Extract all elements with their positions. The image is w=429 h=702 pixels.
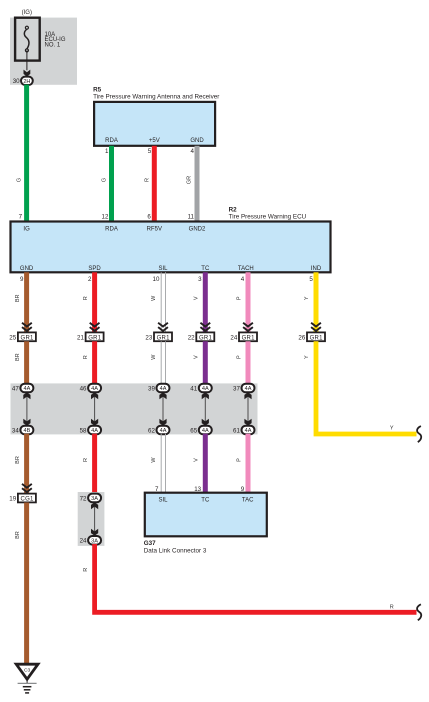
svg-text:BR: BR <box>15 294 21 302</box>
svg-text:21: 21 <box>77 334 84 341</box>
connector GR1 pin 26 <box>298 323 325 342</box>
connector 4A pin 46 <box>80 384 101 393</box>
svg-text:TACH: TACH <box>238 266 254 272</box>
svg-text:GR: GR <box>187 176 193 184</box>
svg-text:BR: BR <box>15 456 21 464</box>
svg-text:R5: R5 <box>93 86 102 93</box>
svg-text:RDA: RDA <box>105 138 118 144</box>
connector 2H pin 30 <box>13 77 33 85</box>
svg-text:47: 47 <box>12 385 19 392</box>
svg-text:19: 19 <box>9 496 16 503</box>
svg-text:SIL: SIL <box>158 498 168 504</box>
connector GR1 pin 21 <box>77 323 104 342</box>
svg-text:72: 72 <box>80 495 87 502</box>
svg-text:GR1: GR1 <box>199 335 213 341</box>
connector GR1 pin 25 <box>9 323 36 342</box>
svg-text:5: 5 <box>309 276 313 283</box>
svg-text:Tire Pressure Warning ECU: Tire Pressure Warning ECU <box>229 214 307 221</box>
svg-text:Y: Y <box>304 355 310 359</box>
wire IND yellow elbow to right edge <box>304 341 417 434</box>
wire TC violet GR1 to junction 4A <box>194 341 208 384</box>
arrow between 72 and 24 <box>91 502 98 536</box>
svg-text:GND: GND <box>20 266 34 272</box>
wire GND brown from R2 pin 9 to GR1 <box>15 272 29 334</box>
svg-text:4B: 4B <box>23 428 30 434</box>
wire GND brown junction to CG1 <box>15 434 29 495</box>
arrow from fuse to connector 2H <box>24 50 31 76</box>
wire SIL white GR1 to junction 4A <box>151 341 166 384</box>
svg-text:IND: IND <box>311 266 322 272</box>
svg-text:GR1: GR1 <box>157 335 171 341</box>
svg-text:3A: 3A <box>91 496 98 502</box>
wire TACH pink junction to G37 pin 9 <box>236 434 250 493</box>
svg-text:4A: 4A <box>245 386 252 392</box>
svg-text:GR1: GR1 <box>242 335 256 341</box>
svg-text:4A: 4A <box>91 386 98 392</box>
svg-text:26: 26 <box>298 334 305 341</box>
break symbol yellow wire <box>417 426 421 442</box>
arrow between 41 and 65 <box>202 392 209 426</box>
svg-text:P: P <box>236 458 242 462</box>
connector 4A pin 39 <box>148 384 169 393</box>
svg-text:R: R <box>83 568 89 572</box>
R5 Tire Pressure Warning Antenna and Receiver <box>93 86 219 154</box>
wire TACH pink GR1 to junction 4A <box>236 341 250 384</box>
svg-text:23: 23 <box>145 334 152 341</box>
svg-text:BR: BR <box>15 353 21 361</box>
svg-text:CG1: CG1 <box>21 497 35 503</box>
svg-text:2H: 2H <box>23 79 30 85</box>
svg-text:G: G <box>102 178 108 182</box>
arrow between 47 and 34 <box>23 392 30 426</box>
svg-text:4A: 4A <box>245 428 252 434</box>
fuse block background panel <box>10 18 77 85</box>
svg-text:41: 41 <box>190 385 197 392</box>
svg-text:TAC: TAC <box>242 498 254 504</box>
wire TACH pink from R2 pin 4 to GR1 <box>236 272 250 334</box>
svg-text:34: 34 <box>12 427 19 434</box>
svg-text:GR1: GR1 <box>310 335 324 341</box>
svg-text:G: G <box>16 178 22 182</box>
svg-text:4A: 4A <box>160 386 167 392</box>
connector GR1 pin 22 <box>188 323 215 342</box>
svg-text:4A: 4A <box>91 428 98 434</box>
svg-text:R: R <box>144 178 150 182</box>
svg-text:37: 37 <box>233 385 240 392</box>
svg-text:Y: Y <box>390 426 394 432</box>
svg-text:W: W <box>151 295 157 301</box>
svg-text:4: 4 <box>241 276 245 283</box>
svg-text:NO. 1: NO. 1 <box>45 43 61 49</box>
svg-text:GR1: GR1 <box>21 335 35 341</box>
svg-text:9: 9 <box>20 276 24 283</box>
svg-text:46: 46 <box>80 385 87 392</box>
svg-text:Y: Y <box>304 296 310 300</box>
svg-text:62: 62 <box>148 427 155 434</box>
svg-text:GR1: GR1 <box>88 335 102 341</box>
svg-text:V: V <box>194 458 200 462</box>
svg-text:4A: 4A <box>202 386 209 392</box>
wire GND brown CG1 to ground <box>15 503 29 665</box>
svg-text:R: R <box>83 296 89 300</box>
svg-text:25: 25 <box>9 334 16 341</box>
svg-text:3A: 3A <box>91 538 98 544</box>
svg-text:R: R <box>83 458 89 462</box>
connector GR1 pin 23 <box>145 323 172 342</box>
connector 4B pin 34 <box>12 426 33 435</box>
svg-text:R: R <box>83 355 89 359</box>
svg-text:11: 11 <box>188 213 195 220</box>
connector 4A pin 41 <box>190 384 211 393</box>
svg-text:61: 61 <box>233 427 240 434</box>
svg-text:(IG): (IG) <box>22 10 32 16</box>
connector 4A pin 47 <box>12 384 33 393</box>
svg-text:24: 24 <box>230 334 237 341</box>
ground C3 <box>16 664 38 693</box>
wire SIL white from R2 pin 10 to GR1 <box>151 272 166 334</box>
svg-text:RF5V: RF5V <box>147 226 162 232</box>
svg-text:4A: 4A <box>23 386 30 392</box>
svg-text:+5V: +5V <box>149 138 160 144</box>
svg-text:3: 3 <box>198 276 202 283</box>
svg-text:4: 4 <box>191 148 195 155</box>
svg-text:C3: C3 <box>24 668 31 674</box>
wire IG green from 2H to R2 pin 7 <box>16 85 29 222</box>
svg-text:GND2: GND2 <box>189 226 206 232</box>
svg-text:22: 22 <box>188 334 195 341</box>
R2 Tire Pressure Warning ECU <box>11 206 331 283</box>
svg-text:IG: IG <box>23 226 30 232</box>
wire GND brown GR1 to junction 4A <box>15 341 29 384</box>
svg-text:W: W <box>151 457 157 463</box>
connector 4A pin 65 <box>190 426 211 435</box>
svg-text:R: R <box>390 605 394 611</box>
svg-text:R2: R2 <box>229 206 238 213</box>
junction block gray band <box>11 383 258 434</box>
wire TC violet from R2 pin 3 to GR1 <box>194 272 208 334</box>
wire SPD red from R2 pin 2 to GR1 <box>83 272 97 334</box>
connector CG1 pin 19 <box>9 484 36 503</box>
connector GR1 pin 24 <box>230 323 257 342</box>
svg-text:24: 24 <box>80 538 87 545</box>
wire IND yellow from R2 pin 5 to GR1 <box>304 272 319 334</box>
wire SIL white junction to G37 pin 7 <box>151 434 166 493</box>
svg-text:SPD: SPD <box>88 266 101 272</box>
svg-text:P: P <box>236 355 242 359</box>
wire TC violet junction to G37 pin 13 <box>194 434 208 493</box>
wire GND gray from R5 pin 4 to R2 pin 11 <box>187 146 200 222</box>
svg-text:GND: GND <box>190 138 204 144</box>
svg-text:W: W <box>151 354 157 360</box>
svg-text:10: 10 <box>153 276 160 283</box>
svg-text:5: 5 <box>148 148 152 155</box>
svg-text:RDA: RDA <box>105 226 118 232</box>
connector 4A pin 61 <box>233 426 254 435</box>
svg-text:65: 65 <box>190 427 197 434</box>
svg-text:30: 30 <box>13 78 20 85</box>
svg-text:58: 58 <box>80 427 87 434</box>
svg-text:39: 39 <box>148 385 155 392</box>
svg-text:V: V <box>194 355 200 359</box>
arrow between 37 and 61 <box>244 392 251 426</box>
fuse 10A ECU-IG NO. 1 <box>15 18 66 61</box>
svg-text:12: 12 <box>102 213 109 220</box>
svg-text:6: 6 <box>147 213 151 220</box>
svg-text:Tire Pressure Warning Antenna: Tire Pressure Warning Antenna and Receiv… <box>93 93 219 100</box>
wire SPD red GR1 to junction 4A <box>83 341 97 384</box>
wire SPD red junction to 3A <box>83 434 97 494</box>
junction block 3A gray panel <box>78 492 105 546</box>
break symbol red wire <box>417 604 421 620</box>
connector 4A pin 58 <box>80 426 101 435</box>
svg-text:TC: TC <box>201 266 210 272</box>
svg-text:V: V <box>194 296 200 300</box>
G37 Data Link Connector 3 <box>144 486 267 555</box>
connector 3A pin 72 <box>80 494 101 503</box>
arrow between 39 and 62 <box>159 392 166 426</box>
svg-text:BR: BR <box>15 531 21 539</box>
svg-text:7: 7 <box>19 213 23 220</box>
wire +5V red from R5 pin 5 to R2 pin 6 <box>144 146 156 222</box>
svg-text:G37: G37 <box>144 540 156 547</box>
svg-text:SIL: SIL <box>158 266 168 272</box>
connector 3A pin 24 <box>80 536 101 545</box>
connector 4A pin 37 <box>233 384 254 393</box>
svg-text:Data Link Connector 3: Data Link Connector 3 <box>144 548 207 555</box>
svg-text:2: 2 <box>88 276 92 283</box>
svg-text:1: 1 <box>105 148 109 155</box>
arrow between 46 and 58 <box>91 392 98 426</box>
connector 4A pin 62 <box>148 426 169 435</box>
svg-text:P: P <box>236 296 242 300</box>
wire SPD red elbow to right edge <box>83 544 416 612</box>
svg-text:TC: TC <box>201 498 210 504</box>
wire RDA green from R5 pin 1 to R2 pin 12 <box>102 146 114 222</box>
svg-text:4A: 4A <box>160 428 167 434</box>
svg-text:4A: 4A <box>202 428 209 434</box>
